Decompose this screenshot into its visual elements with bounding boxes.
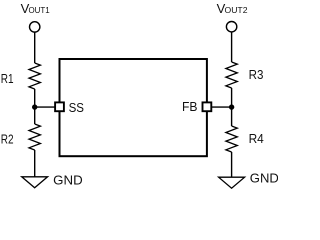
ground left	[22, 177, 48, 188]
terminal VOUT2	[226, 22, 236, 32]
terminal VOUT1	[30, 22, 40, 32]
svg-text:GND: GND	[53, 172, 83, 187]
junction node A	[32, 104, 37, 109]
resistor R1	[29, 63, 40, 89]
wire FB pin to node B	[212, 106, 232, 108]
node VOUT2 label	[217, 1, 248, 16]
svg-text:FB: FB	[182, 99, 198, 114]
wire R1 to node A	[34, 89, 36, 124]
junction node B	[229, 104, 234, 109]
svg-text:R2: R2	[1, 132, 14, 147]
wire R4 to ground	[231, 152, 233, 177]
resistor R2	[29, 124, 40, 150]
wire R2 to ground	[34, 150, 36, 177]
svg-text:OUT2: OUT2	[225, 6, 249, 15]
node VOUT1 label	[21, 1, 51, 16]
wire R3 to node B	[231, 88, 233, 126]
svg-text:OUT1: OUT1	[29, 6, 51, 15]
pin SS square	[55, 102, 64, 111]
svg-text:R4: R4	[249, 131, 264, 146]
op-amp U1 box	[60, 59, 207, 156]
wire VOUT1 to R1	[34, 32, 36, 63]
svg-text:R3: R3	[249, 67, 264, 82]
svg-text:SS: SS	[69, 100, 85, 115]
svg-text:R1: R1	[1, 71, 14, 86]
wire node A to SS pin	[35, 106, 55, 108]
resistor R4	[226, 126, 237, 152]
pin FB square	[203, 102, 212, 111]
ground right	[219, 177, 245, 188]
resistor R3	[226, 62, 237, 88]
svg-text:GND: GND	[250, 170, 278, 185]
wire VOUT2 to R3	[231, 32, 233, 62]
